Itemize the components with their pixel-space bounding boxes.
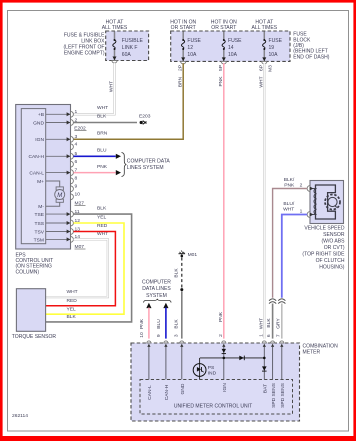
svg-text:IGN: IGN — [222, 383, 228, 392]
EPS pin 11 stub — [46, 209, 80, 217]
svg-text:IND: IND — [208, 371, 217, 377]
fuse 14 symbol — [222, 32, 225, 62]
fuse block box (dashed) — [171, 31, 290, 61]
connector ref M27 (underlined) — [75, 200, 86, 206]
meter pin 7 entry (arc+arrow) SPD SENS — [280, 341, 284, 380]
svg-text:LINES SYSTEM: LINES SYSTEM — [127, 165, 164, 171]
caption: fuse and fusible link box location — [63, 33, 105, 57]
diode D2 on rail — [239, 356, 244, 361]
wire BLK from connector to meter pin 6 — [272, 304, 274, 339]
svg-text:WHT: WHT — [258, 76, 264, 87]
data line arrow (BLU) — [116, 154, 121, 159]
connector exit fuse 14 (arrow + arc) — [221, 57, 226, 64]
wire BLK from EPS pin 11 to torque sensor — [46, 214, 132, 322]
wire WHT from fuse 19 to meter pin 1 — [263, 63, 265, 339]
wire label BLU/WHT — [283, 201, 295, 213]
EPS pin 12 stub — [46, 218, 81, 226]
svg-text:BRN: BRN — [177, 76, 183, 87]
svg-text:GND: GND — [180, 383, 186, 394]
torque sensor box — [16, 289, 45, 332]
vehicle speed sensor box — [310, 181, 344, 224]
connector exit fuse 19 (arrow + arc) — [262, 57, 267, 64]
svg-text:FUSE: FUSE — [228, 38, 242, 44]
wire BLK dashed from M01 to splice — [181, 258, 183, 288]
wire BLU from EPS pin 5 to data lines arrow — [74, 155, 116, 157]
wire PNK from EPS pin 7 to data lines arrow — [74, 172, 116, 174]
svg-text:FUSIBLE: FUSIBLE — [122, 38, 144, 44]
PS IND indicator lamp — [193, 364, 206, 377]
svg-text:2P: 2P — [177, 65, 183, 71]
svg-text:HOUSING): HOUSING) — [319, 264, 345, 270]
fuse 12 symbol — [181, 32, 184, 62]
svg-text:ENGINE COMPT): ENGINE COMPT) — [64, 51, 105, 57]
wire BLK from EPS pin 2 to ground E203 — [74, 122, 138, 124]
data line arrow up (BLU CAN-H) — [163, 303, 168, 308]
wire WHT from fusible link F to EPS pin 1 — [74, 63, 115, 114]
diode D1 on IGN branch — [222, 349, 226, 354]
svg-text:M01: M01 — [188, 252, 198, 258]
svg-text:10A: 10A — [269, 52, 279, 58]
diode D3 on BAT branch — [262, 366, 267, 371]
svg-text:ALL TIMES: ALL TIMES — [252, 25, 278, 31]
meter pin 1 entry (arc+arrow) BAT — [262, 341, 266, 380]
net label COMPUTER DATA LINES SYSTEM (upper) — [127, 159, 171, 172]
svg-text:OR START: OR START — [211, 25, 236, 31]
svg-text:BLU/: BLU/ — [283, 201, 295, 207]
net label HOT AT ALL TIMES (fusible link F) — [102, 20, 128, 32]
internal rail wire — [200, 357, 264, 359]
svg-text:OR START: OR START — [171, 25, 196, 31]
EPS control unit U1 outer box — [16, 105, 71, 250]
caption: EPS control unit location — [16, 252, 54, 275]
ground symbol E203 — [140, 121, 146, 125]
svg-text:6: 6 — [266, 334, 272, 337]
fusible link box (dashed) — [106, 31, 149, 61]
svg-text:1: 1 — [75, 109, 78, 115]
svg-text:COMPUTER: COMPUTER — [142, 280, 171, 286]
svg-text:(TOP RIGHT SIDE: (TOP RIGHT SIDE — [302, 251, 345, 257]
svg-text:OF CLUTCH: OF CLUTCH — [316, 258, 345, 264]
unified meter control unit box (dashed) — [140, 380, 293, 415]
svg-text:10: 10 — [75, 192, 81, 198]
svg-text:7: 7 — [275, 334, 281, 337]
speed sensor coil — [314, 189, 317, 215]
EPS pin 7 stub — [46, 167, 78, 175]
caption: combination meter — [303, 344, 339, 356]
EPS pin 2 stub — [46, 117, 78, 125]
svg-text:CAN-H: CAN-H — [29, 154, 45, 160]
sensor pin 1 entry (arc + arrow) — [307, 212, 316, 218]
svg-text:19: 19 — [269, 45, 275, 51]
svg-text:5P: 5P — [218, 65, 224, 71]
connector exit fusible link F (arrow + arc) — [112, 57, 117, 64]
wire GRY from connector to meter pin 7 — [281, 304, 283, 339]
svg-text:BLK: BLK — [97, 114, 107, 120]
svg-text:UNIFIED METER CONTROL UNIT: UNIFIED METER CONTROL UNIT — [174, 404, 252, 410]
svg-text:TSV: TSV — [34, 229, 44, 235]
wire BLU from arrow to meter pin 9 — [165, 308, 167, 339]
svg-text:PNK: PNK — [218, 311, 224, 322]
svg-text:OR CVT): OR CVT) — [324, 245, 345, 251]
svg-text:WHT: WHT — [97, 105, 108, 111]
svg-text:FUSE: FUSE — [269, 38, 283, 44]
svg-text:2: 2 — [300, 183, 303, 189]
svg-text:3: 3 — [75, 134, 78, 140]
svg-text:10A: 10A — [187, 52, 197, 58]
motor M symbol — [55, 187, 65, 202]
svg-text:+B: +B — [38, 112, 44, 118]
wire BLK/PNK from sensor pin 2 down — [273, 189, 308, 298]
svg-text:BLK: BLK — [174, 268, 180, 278]
svg-text:BAT: BAT — [263, 384, 269, 393]
brace for computer data lines — [122, 153, 127, 177]
wire PNK from fuse 14 to meter pin 2 — [223, 63, 225, 339]
EPS pin 14 stub — [46, 234, 81, 242]
svg-text:12: 12 — [187, 45, 193, 51]
wire BRN from fuse 12 to EPS pin 3 — [74, 63, 184, 139]
svg-text:LINK F: LINK F — [122, 45, 138, 51]
meter pin 3 entry (arc+arrow) GND — [180, 341, 184, 380]
sensor pin 2 entry (arc + arrow) — [307, 186, 316, 192]
connector exit fuse 12 (arrow + arc) — [181, 57, 186, 64]
junction BAT/rail — [263, 357, 266, 360]
svg-text:VEHICLE SPEED: VEHICLE SPEED — [304, 225, 344, 231]
svg-text:BLU: BLU — [156, 319, 162, 329]
svg-text:PNK: PNK — [139, 318, 145, 329]
EPS pin 8 stub — [71, 176, 78, 184]
svg-text:BLK: BLK — [266, 318, 272, 328]
svg-text:CAN-H: CAN-H — [164, 384, 170, 400]
svg-text:M+: M+ — [37, 179, 44, 185]
fusible link F value label — [122, 38, 144, 58]
fuse 14 label — [228, 38, 242, 58]
svg-text:4: 4 — [75, 142, 78, 148]
EPS pin 5 stub — [46, 151, 78, 159]
svg-text:PNK: PNK — [218, 76, 224, 87]
svg-text:SPD SENS: SPD SENS — [271, 382, 277, 407]
wire PNK from arrow to meter pin 10 — [148, 308, 150, 339]
wire YEL from EPS pin 12 to torque sensor — [46, 223, 124, 314]
ground symbol M01 — [179, 250, 186, 257]
svg-text:9: 9 — [156, 334, 162, 337]
EPS pin 6 stub — [71, 159, 78, 167]
svg-text:E203: E203 — [139, 113, 151, 119]
svg-text:60A: 60A — [122, 52, 132, 58]
svg-text:10A: 10A — [228, 52, 238, 58]
svg-text:COLUMN): COLUMN) — [16, 269, 40, 275]
svg-text:BLU: BLU — [97, 148, 107, 154]
meter pin 9 entry (arc+arrow) CAN-H — [164, 341, 168, 380]
svg-text:IGN: IGN — [35, 137, 44, 143]
svg-text:SPD SENS: SPD SENS — [280, 382, 286, 407]
svg-text:6P: 6P — [258, 65, 264, 71]
combination meter box (dashed) — [131, 343, 300, 421]
svg-text:9: 9 — [75, 184, 78, 190]
EPS pin 10 stub — [71, 192, 81, 200]
caption: fuse block location — [293, 32, 329, 61]
data line arrow (PNK) — [116, 170, 121, 175]
svg-text:WHT: WHT — [258, 318, 264, 329]
svg-text:METER: METER — [303, 350, 321, 356]
svg-text:BLK: BLK — [67, 314, 77, 320]
net label HOT IN ON OR START (fuse 14) — [211, 20, 237, 32]
wire through PS IND lamp — [199, 358, 201, 380]
svg-text:M-: M- — [38, 204, 44, 210]
inline connector (BLK/PNK to BLK) — [269, 299, 276, 304]
svg-text:6: 6 — [75, 159, 78, 165]
svg-text:14: 14 — [228, 45, 234, 51]
connector ref E202 (underlined) — [74, 126, 86, 132]
net label COMPUTER DATA LINES SYSTEM (lower) — [142, 280, 171, 299]
wire BLU/WHT from sensor pin 1 down — [282, 215, 307, 298]
svg-text:TSS: TSS — [34, 221, 44, 227]
svg-text:SYSTEM: SYSTEM — [146, 293, 167, 299]
svg-text:M3: M3 — [267, 65, 273, 72]
svg-text:GND: GND — [33, 120, 44, 126]
svg-text:PNK: PNK — [284, 183, 295, 189]
svg-text:DATA LINES: DATA LINES — [142, 286, 171, 292]
wire RED from EPS pin 13 to torque sensor — [46, 232, 116, 306]
svg-text:PNK: PNK — [97, 164, 108, 170]
svg-text:2: 2 — [218, 334, 224, 337]
svg-text:CAN-L: CAN-L — [147, 385, 153, 400]
svg-text:(W/O ABS: (W/O ABS — [322, 238, 346, 244]
svg-text:WHT: WHT — [283, 207, 294, 213]
svg-text:8: 8 — [75, 176, 78, 182]
wire label BLK/PNK — [284, 177, 295, 189]
svg-text:TSE: TSE — [34, 212, 44, 218]
caption: vehicle speed sensor location — [302, 225, 345, 270]
svg-text:WHT: WHT — [67, 289, 78, 295]
fuse 19 symbol — [263, 32, 266, 62]
wire WHT from EPS pin 14 to torque sensor — [46, 239, 108, 297]
EPS pin 9 stub — [71, 184, 78, 192]
inline connector (BLU/WHT to GRY) — [278, 299, 285, 304]
svg-text:SENSOR: SENSOR — [323, 232, 345, 238]
brace (horizontal) for data lines — [144, 299, 172, 303]
svg-text:CAN-L: CAN-L — [29, 171, 44, 177]
meter pin 6 entry (arc+arrow) SPD SENS — [271, 341, 275, 380]
net label HOT IN ON OR START (fuse 12) — [170, 20, 196, 32]
wire BLK from splice to meter pin 3 — [181, 291, 183, 338]
svg-text:YEL: YEL — [67, 307, 77, 313]
svg-text:TSM: TSM — [34, 237, 44, 243]
junction IGN/rail — [223, 357, 226, 360]
fuse 12 label — [187, 38, 201, 58]
svg-text:COMPUTER DATA: COMPUTER DATA — [127, 159, 171, 165]
EPS pin 1 stub — [46, 109, 78, 117]
svg-text:TORQUE SENSOR: TORQUE SENSOR — [12, 334, 57, 340]
EPS pin 4 stub — [71, 142, 78, 150]
svg-text:END OF DASH): END OF DASH) — [293, 54, 329, 60]
meter pin 10 entry (arc+arrow) CAN-L — [147, 341, 151, 380]
fusible link F 60A symbol — [113, 32, 116, 61]
svg-text:GRY: GRY — [275, 318, 281, 329]
speed sensor housing art — [316, 185, 341, 219]
svg-text:WHT: WHT — [109, 81, 115, 92]
svg-text:BLK/: BLK/ — [284, 177, 295, 183]
fuse 19 label — [269, 38, 283, 58]
svg-text:YEL: YEL — [97, 214, 107, 220]
svg-text:BLK: BLK — [97, 205, 107, 211]
EPS control unit inner box — [21, 109, 45, 244]
svg-text:ALL TIMES: ALL TIMES — [102, 25, 128, 31]
EPS pin 13 stub — [46, 226, 81, 234]
svg-text:10: 10 — [139, 332, 145, 338]
svg-text:BRN: BRN — [97, 131, 108, 137]
label PS IND — [208, 365, 217, 377]
svg-text:1: 1 — [258, 334, 264, 337]
svg-text:M: M — [57, 193, 62, 199]
svg-text:RED: RED — [67, 298, 78, 304]
connector ref M07 (underlined) — [75, 244, 86, 250]
meter pin 2 entry (arc+arrow) IGN — [222, 341, 226, 380]
splice junction dot — [180, 288, 183, 291]
motor M windings loop — [46, 181, 60, 206]
svg-text:262114: 262114 — [12, 413, 28, 419]
svg-text:BLK: BLK — [174, 319, 180, 329]
svg-text:FUSE: FUSE — [187, 38, 201, 44]
EPS pin 3 stub — [46, 134, 78, 142]
net label HOT AT ALL TIMES (fuse 19) — [252, 20, 278, 32]
svg-text:3: 3 — [174, 334, 180, 337]
data line arrow up (PNK CAN-L) — [146, 303, 151, 308]
svg-text:PS: PS — [208, 365, 215, 371]
